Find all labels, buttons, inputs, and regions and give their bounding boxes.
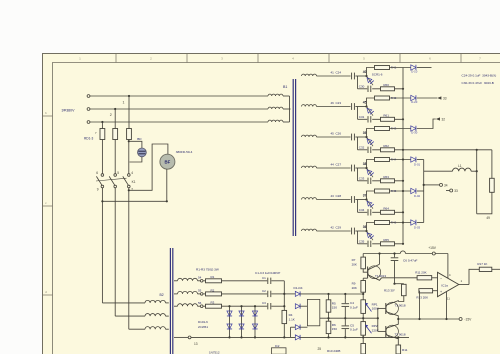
wire D-03 to link [417,222,424,224]
top margin zone ticks [115,54,117,63]
wire fuse feeder 3 [101,122,103,129]
wire T1 emitter row [382,277,418,279]
svg-text:R4: R4 [289,313,293,317]
switch K1 pole 1 upper contact [101,174,104,177]
op-amp pin 4 [447,254,449,279]
wire capacitor C2 out [271,293,284,295]
svg-text:150: 150 [332,327,337,331]
wire secondary row 6 [317,230,351,232]
svg-text:D1-D4: D1-D4 [294,286,303,290]
terminal 55 [198,293,201,295]
svg-text:R13 20K: R13 20K [416,295,428,299]
wire fuse2 to switch [114,140,116,174]
svg-text:11: 11 [447,297,450,301]
svg-text:R17 1K: R17 1K [477,262,487,266]
svg-text:4: 4 [131,171,133,175]
resistor R13a 30 [402,284,407,295]
transformer B1 secondary winding 1 [302,74,317,76]
diode D-20 [411,95,416,100]
resistor R3 [203,305,205,307]
svg-text:-15V: -15V [464,318,472,322]
resistor R6 [326,321,331,333]
svg-text:33: 33 [443,97,447,101]
transformer B2 secondary winding 1 [174,280,178,282]
svg-text:IC1a: IC1a [441,284,448,288]
motor BF [160,154,175,169]
svg-text:1: 1 [123,101,125,105]
node emitter junction [397,318,399,320]
svg-text:3Φ380V: 3Φ380V [62,108,76,112]
filter block [307,299,319,325]
wire R11 to inverting input [432,277,438,279]
svg-text:C1: C1 [262,276,266,280]
resistor R5 [326,300,331,312]
bell BD [138,148,147,157]
capacitor C1 [267,278,269,284]
svg-text:5: 5 [117,171,119,175]
wire branch to diode row 2 [390,97,411,99]
wire right link vertical [423,160,425,223]
svg-text:R2: R2 [211,288,215,292]
wire R17 out [492,268,500,270]
wire secondary row 3 [317,136,351,138]
svg-text:T1 9018: T1 9018 [395,303,406,307]
svg-text:RD1-3: RD1-3 [84,137,93,141]
wire branch up row 1 [367,68,375,77]
transistor T3 9018 lower [386,325,398,337]
svg-text:20K: 20K [352,263,357,267]
svg-text:R62: R62 [383,144,389,148]
capacitor C4 [344,294,346,303]
svg-text:49: 49 [486,216,490,220]
thyristor SCR1 [367,76,374,85]
wire R13a to T2 collector [398,296,404,302]
resistor R13 20K [419,289,433,293]
capacitor C29 [351,228,353,235]
wire filter vertical [283,281,285,311]
wire resistor 49 bottom [477,192,492,214]
svg-text:R11 20K: R11 20K [415,271,426,275]
terminal 32 [417,119,436,129]
resistor R41 [375,66,390,70]
terminal phase C [87,121,90,124]
svg-text:B1: B1 [283,85,287,89]
wire sub-row 3 [358,149,368,151]
svg-text:R64: R64 [383,207,389,211]
diode column D105/D106 [254,306,256,337]
wire fuse feeder 2 [114,109,116,129]
resistor R63 [381,179,395,183]
svg-text:C32: C32 [359,146,365,150]
svg-text:D-03: D-03 [414,225,421,229]
wire cap to node row 5 [355,199,366,201]
svg-text:D-20: D-20 [411,100,418,104]
wire capacitor C3 out [271,305,284,307]
svg-text:6: 6 [96,171,98,175]
wire motor return [102,200,166,202]
capacitor C2 [267,291,269,297]
resistor R42 [375,96,390,100]
wire cap to node row 1 [355,75,366,77]
resistor R62 [381,148,395,152]
terminal 56 [198,305,201,307]
capacitor C32 [367,147,369,153]
svg-text:25: 25 [318,347,322,351]
wire switch pole2 down to B2 [114,188,116,316]
switch K1 pole 2 lower contact [114,185,117,188]
diode D4 [295,335,300,340]
transistor T2 9018 upper [386,302,398,314]
wire +15V rail [363,253,400,255]
wire branch up row 2 [367,98,375,107]
wire capacitor C1 out [271,280,284,282]
wire drive to bases [377,308,379,318]
terminal -15V [459,318,462,321]
switch K1 pole 2 upper contact [114,174,117,177]
wire phase B [91,108,268,110]
transformer B2 secondary winding 3 [174,305,178,307]
svg-text:R11: R11 [402,348,408,352]
node 3 [101,121,103,123]
thyristor SCR3 [367,137,374,146]
terminal +15V [432,252,435,255]
wire phase C [91,121,268,123]
IC2 block [272,348,287,354]
transformer B2 primary winding 1 [145,300,166,303]
wire branch to diode row 4 [390,159,411,161]
wire sub-row drop 3 [357,137,359,150]
wire bottom bus [191,336,295,338]
diode D-01 [411,157,416,162]
svg-text:D-01: D-01 [414,162,421,166]
wire output row to op-amp [416,277,418,279]
resistor R17 1K [479,267,492,271]
fuse RD1 [100,129,105,140]
wire secondary row 1 to capacitor C1 [222,280,268,282]
switch K1 pole 1 lower contact [101,185,104,188]
diode D-02 [411,188,416,193]
wire driver top row [329,293,364,295]
resistor R64 [381,210,395,214]
svg-text:44 C27: 44 C27 [331,163,342,167]
transformer B1 primary winding 2 [268,107,283,109]
svg-text:R7: R7 [352,258,356,262]
svg-text:46 C23: 46 C23 [331,101,342,105]
transformer B2 primary winding 2 [145,314,166,317]
wire secondary row 2 to capacitor C2 [222,293,268,295]
potentiometer RP1 [361,300,366,314]
svg-text:13: 13 [194,342,198,346]
svg-text:C3: C3 [262,301,266,305]
wire R13 left to emitter junction [419,291,421,319]
capacitor C30 [367,86,369,92]
svg-text:R60: R60 [383,83,389,87]
wire switch pole3 down to B2 [128,188,130,329]
wire sub-row 6 [358,243,368,245]
svg-text:+15V: +15V [428,246,437,250]
wire pole3 to B2 winding3 [129,328,145,330]
op-amp pin 11 [446,292,448,320]
wire sub-row drop 6 [357,231,359,244]
capacitor C3 [267,303,269,309]
resistor 49 [490,178,495,192]
capacitor C5 [344,318,346,325]
wire D-02 to link [417,190,424,192]
wire motor BF to return [166,169,168,201]
wire sub-row 5 [358,211,368,213]
svg-text:33: 33 [454,189,458,193]
terminal 33 upper [417,97,437,99]
wire secondary row 3 to capacitor C3 [222,305,268,307]
resistor R44 [375,158,390,162]
wire to bell BD [129,141,142,148]
transformer B1 secondary winding 6 [302,229,317,231]
switch K1 tie bar [96,178,127,181]
transformer B2 core [169,248,171,354]
wire R7 to T1 base [363,269,367,272]
svg-text:R61: R61 [383,114,389,118]
transformer B1 primary winding 1 [268,94,283,96]
wire sub-row drop 1 [357,76,359,89]
svg-text:R63: R63 [383,175,389,179]
op-amp pin 1 output [459,284,469,286]
wire motor feed [129,144,168,190]
svg-text:150: 150 [332,306,337,310]
svg-text:R1: R1 [211,275,215,279]
transformer B1 secondary winding 5 [302,198,317,200]
thyristor SCR6 [367,231,374,240]
wire pole2 to B2 winding2 [115,315,145,317]
svg-text:56: 56 [198,301,202,305]
potentiometer RP2 [361,322,366,336]
left margin zone ticks [43,115,53,117]
svg-text:C35: C35 [359,240,365,244]
wire drop to L1 junction [476,150,478,171]
wire branch to diode row 1 [390,67,411,69]
wire resistor 49 top [491,150,493,179]
wire pole1 to B2 winding1 [102,302,145,304]
svg-text:T2 9018: T2 9018 [395,332,406,336]
wire secondary row 5 [317,199,351,201]
resistor R45 [375,189,390,193]
svg-text:42 C29: 42 C29 [331,226,342,230]
wire branch up row 4 [367,160,375,169]
svg-text:9: 9 [97,188,99,192]
wire -15V row [398,318,459,320]
wire L1 to corner [476,171,478,214]
svg-text:+: + [440,290,442,294]
switch K1 pole 2 blade [109,176,115,185]
svg-text:34: 34 [444,183,448,187]
svg-text:C34: C34 [359,208,365,212]
thyristor SCR4 [367,168,374,177]
diode D-03 [411,220,416,225]
wire secondary row 4 [317,167,351,169]
wire D-01 to link [417,159,424,161]
svg-text:R13 30*: R13 30* [384,288,396,292]
wire sub-row drop 4 [357,168,359,181]
wire fuse feeder 1 [128,96,130,129]
capacitor C26 [351,134,353,141]
fuse RD2 [113,129,118,140]
svg-text:C30-33 0.47uF 3043-B: C30-33 0.47uF 3043-B [462,81,494,85]
svg-text:1.1K: 1.1K [289,318,295,322]
capacitor C24 [351,73,353,80]
diode D-10 [411,65,416,70]
svg-text:R65: R65 [383,238,389,242]
svg-text:BD: BD [137,137,142,141]
svg-text:D-30: D-30 [411,130,418,134]
svg-text:C33: C33 [359,177,365,181]
wire secondary row 2 [317,106,351,108]
resistor R4 [282,310,287,323]
svg-text:R1-R3 750Ω 3W: R1-R3 750Ω 3W [196,267,219,271]
svg-text:1N7512: 1N7512 [209,351,220,354]
svg-text:41 C24: 41 C24 [331,71,342,75]
terminal 33 lower [446,190,450,192]
svg-text:C31: C31 [359,115,365,119]
wire cap to node row 4 [355,167,366,169]
wire C6 to R13a [395,283,404,285]
wire R13 to non-inverting input [433,290,438,292]
svg-text:IC2: IC2 [275,344,280,348]
svg-text:R10 240B: R10 240B [327,349,340,353]
terminal 34 [424,184,440,186]
svg-text:55: 55 [198,289,202,293]
wire sub-row 4 [358,180,368,182]
wire switch pole1 down to B2 [101,188,103,303]
svg-text:B2: B2 [160,293,164,297]
resistor R1 [203,280,205,282]
terminal 13 [188,336,191,339]
wire R4 bottom [283,324,285,338]
resistor R60 [381,87,395,91]
capacitor C23 [351,103,353,110]
svg-text:R9: R9 [352,282,356,286]
svg-text:C6 0.47uF: C6 0.47uF [403,259,418,263]
fuse RD3 [127,129,132,140]
capacitor C35 [367,241,369,247]
transformer B2 primary winding 3 [145,327,166,330]
wire secondary row 1 [317,75,351,77]
vertical bus [402,68,404,244]
svg-text:C1-C3 1uF/100VP: C1-C3 1uF/100VP [255,271,280,275]
svg-text:−: − [440,277,442,281]
diode D1 [284,293,295,295]
wire output up [469,269,479,284]
capacitor C34 [367,209,369,215]
transformer B1 primary winding 3 [268,120,283,122]
resistor R2 [203,293,205,295]
capacitor C27 [351,165,353,172]
thyristor SCR5 [367,200,374,209]
inductor L1 [424,170,453,172]
resistor R9 [361,281,366,293]
transformer B1 core [292,79,294,236]
svg-text:C30: C30 [359,85,365,89]
wire bottom bus left [174,336,188,338]
capacitor C28 [351,196,353,203]
node 2 [114,108,116,110]
wire D3 stub [290,327,292,337]
diode D-30 [411,126,416,131]
wire branch up row 6 [367,223,375,232]
terminal 54 [198,280,201,282]
svg-text:2CW61: 2CW61 [198,325,208,329]
wire branch up row 5 [367,191,375,200]
transformer B1 secondary winding 3 [302,135,317,137]
wire branch to diode row 5 [390,190,411,192]
resistor R46 [375,221,390,225]
svg-text:C2: C2 [262,289,266,293]
wire driver mid row [320,317,378,319]
resistor R61 [381,117,395,121]
transformer B2 secondary winding 2 [174,293,178,295]
svg-text:45 C26: 45 C26 [331,132,342,136]
svg-text:D101-6: D101-6 [198,320,208,324]
resistor R7 [362,254,364,258]
svg-text:20K: 20K [352,286,357,290]
wire sub-row drop 2 [357,107,359,120]
svg-text:K1: K1 [132,180,136,184]
svg-text:L1: L1 [458,164,462,168]
op-amp IC1a [438,272,459,296]
wire snubber row to resistor 49 [403,149,492,151]
diode D3 [291,326,296,328]
resistor R11 20K [417,276,432,280]
resistor R10 [362,337,364,343]
sheet outer frame [43,54,500,354]
svg-text:BF: BF [165,159,171,164]
transformer B1 secondary winding 2 [302,105,317,107]
wire sub-row 1 [358,88,368,90]
wire fuse1 to switch [101,140,103,174]
wire branch to diode row 6 [390,222,411,224]
terminal phase B [87,108,90,111]
svg-text:D-10: D-10 [411,69,418,73]
diode column D103/D104 [241,306,243,337]
svg-text:43 C28: 43 C28 [331,194,342,198]
wire row1 out [417,67,432,69]
capacitor C33 [367,178,369,184]
transistor T1 9013 [368,266,381,279]
switch K1 pole 1 blade [96,176,102,185]
transformer B1 secondary winding 4 [302,166,317,168]
wire phase A [91,95,268,97]
terminal phase A [87,95,90,98]
resistor R12 lower [396,345,401,354]
node 1 [128,95,130,97]
svg-text:54: 54 [198,276,202,280]
thyristor SCR2 [367,107,374,116]
wire cap to node row 6 [355,230,366,232]
wire cap to node row 3 [355,136,366,138]
svg-text:2: 2 [110,113,112,117]
resistor R43 [375,127,390,131]
wire sub-row drop 5 [357,200,359,213]
diode column D101/D102 [229,306,231,337]
capacitor C6 [394,254,396,258]
wire fuse3 to switch [128,140,130,174]
svg-text:R3: R3 [211,301,215,305]
diode D2 [295,304,300,309]
capacitor C31 [367,116,369,122]
svg-text:380FD-50-4: 380FD-50-4 [176,150,193,154]
svg-text:32: 32 [442,117,446,121]
sheet inner frame [53,63,500,354]
wire sub-row 2 [358,118,368,120]
switch K1 pole 3 upper contact [128,174,131,177]
